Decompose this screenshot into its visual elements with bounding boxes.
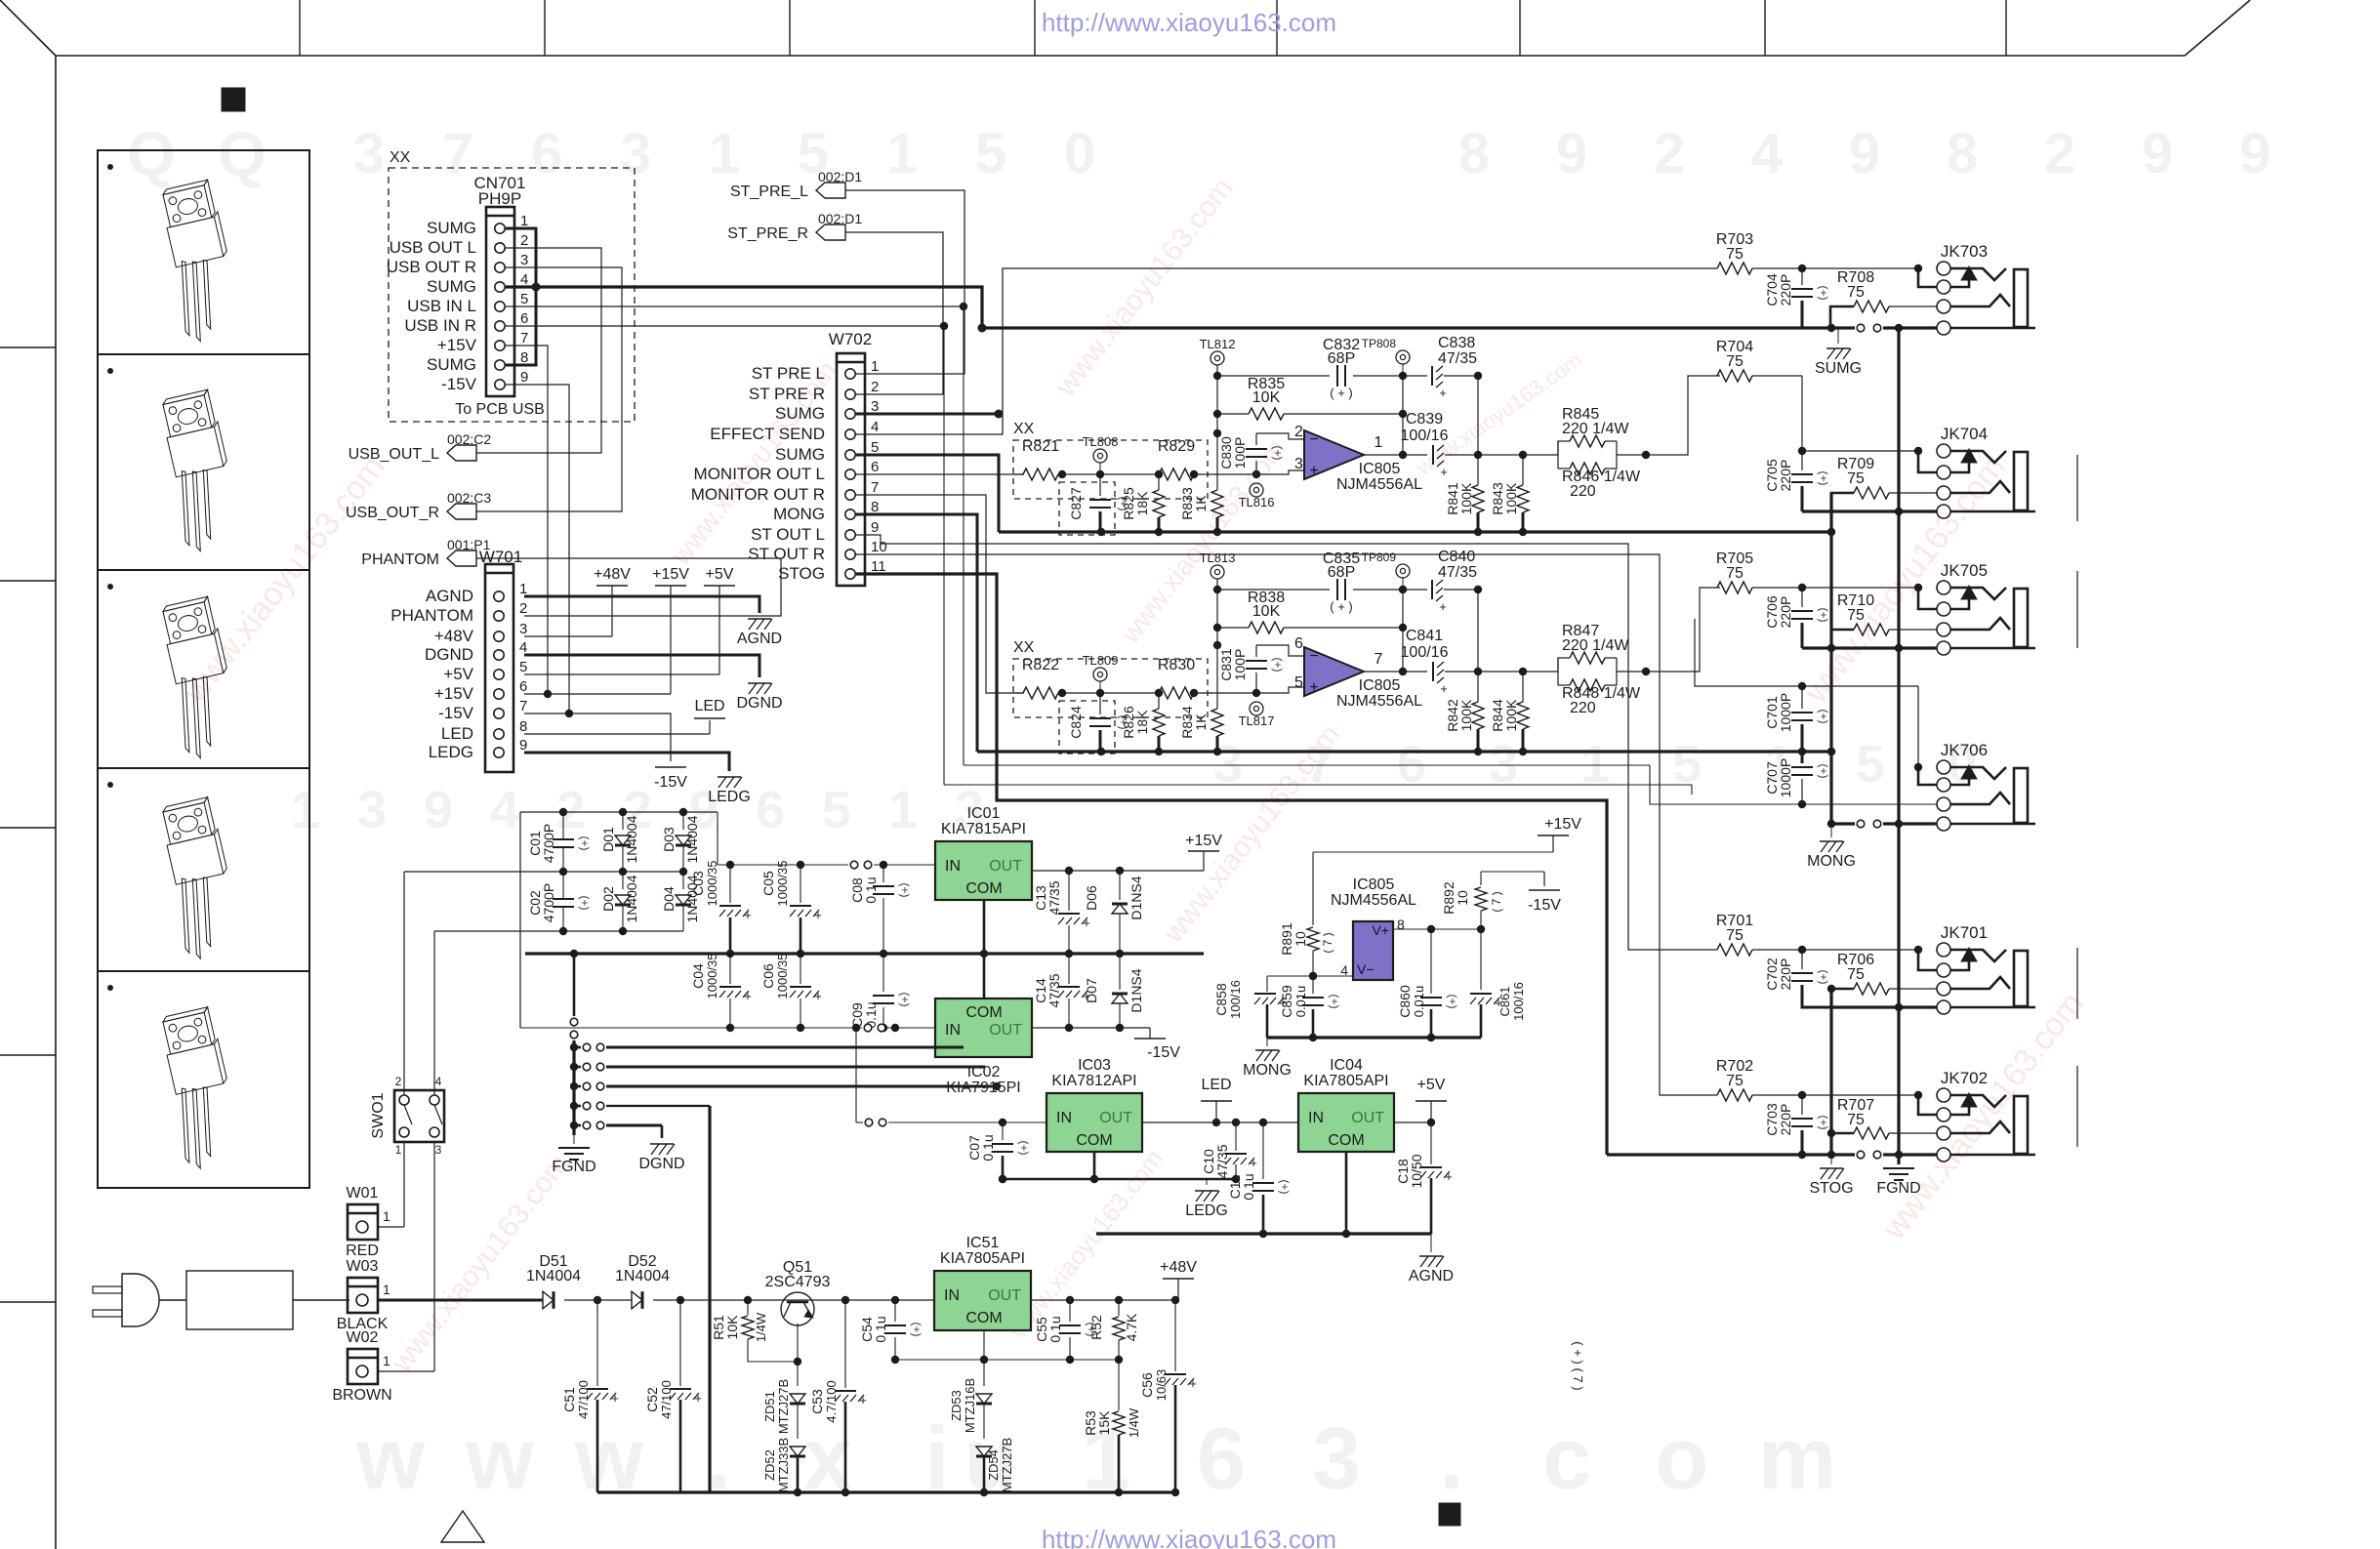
resistor R706 75 xyxy=(1827,952,1937,995)
W701 pin 9 (LEDG) xyxy=(429,737,528,761)
svg-text:D02: D02 xyxy=(600,886,616,912)
wire USB IN L (pin5) xyxy=(506,303,1937,804)
capacitor C14 47/35 xyxy=(1033,954,1090,1032)
svg-text:ST PRE R: ST PRE R xyxy=(749,385,825,403)
wire SUMG bus CN701 pin4 to jacks xyxy=(506,287,1802,333)
top black square xyxy=(222,88,245,111)
wire JK704 sleeve xyxy=(1802,508,1937,515)
svg-text:ST OUT L: ST OUT L xyxy=(751,525,825,544)
svg-text:C03: C03 xyxy=(690,871,706,896)
svg-text:10: 10 xyxy=(1455,890,1470,906)
svg-text:OUT: OUT xyxy=(1099,1110,1132,1126)
connector W702 xyxy=(829,330,872,586)
resistor R842 100K xyxy=(1445,668,1484,752)
power rail +48V xyxy=(1160,1259,1197,1300)
svg-text:8: 8 xyxy=(519,718,527,735)
wire W03 black feed xyxy=(378,1299,543,1302)
svg-text:6: 6 xyxy=(756,781,785,839)
capacitor C06 1000/35 xyxy=(760,954,822,1033)
resistor R705 75 xyxy=(1716,550,1806,593)
wire op-amp output channel 2 xyxy=(1364,590,1407,675)
zener ZD53 MTZJ16B xyxy=(949,1360,992,1439)
wire IC51 mid rail xyxy=(895,1359,1119,1361)
svg-text:+: + xyxy=(1439,386,1447,400)
svg-text:R822: R822 xyxy=(1022,657,1059,673)
svg-text:LEDG: LEDG xyxy=(429,743,473,761)
diode D07 D1NS4 xyxy=(1084,954,1144,1032)
svg-text:C827: C827 xyxy=(1068,487,1084,520)
svg-text:XX: XX xyxy=(1013,639,1035,656)
capacitor C860 0.01u xyxy=(1397,929,1459,1041)
svg-text:COM: COM xyxy=(1328,1132,1364,1149)
svg-text:V+: V+ xyxy=(1372,922,1389,938)
svg-text:5: 5 xyxy=(519,659,527,675)
wire USB IN R (pin6) xyxy=(506,322,1692,785)
svg-text:1: 1 xyxy=(383,1353,390,1368)
wire W702 pin9 ST OUT L to R701 xyxy=(856,535,1717,950)
svg-text:(+): (+) xyxy=(1817,710,1830,724)
svg-text:-15V: -15V xyxy=(1147,1044,1180,1061)
svg-text:1: 1 xyxy=(888,781,918,839)
wire AGND bus xyxy=(1096,1232,1431,1235)
ground STOG xyxy=(1809,1155,1853,1197)
op-amp IC805 channel 1 xyxy=(1304,430,1422,493)
svg-text:47/100: 47/100 xyxy=(659,1380,674,1419)
wire ground bus channel 2 xyxy=(977,748,1835,755)
test point TL816 xyxy=(1239,483,1275,510)
wire input row channel 1 xyxy=(1013,470,1260,478)
wire SW01 to rectifier A xyxy=(403,872,405,1095)
resistor R829 xyxy=(1158,438,1195,480)
svg-text:68P: 68P xyxy=(1328,564,1355,581)
svg-text:COM: COM xyxy=(965,1004,1002,1021)
svg-text:LEDG: LEDG xyxy=(1185,1203,1228,1219)
svg-text:MTZJ16B: MTZJ16B xyxy=(963,1378,977,1433)
svg-text:R821: R821 xyxy=(1022,438,1059,455)
wire cluster row2 end xyxy=(964,1066,985,1069)
svg-text:MONITOR OUT R: MONITOR OUT R xyxy=(691,485,825,504)
wire USB OUT L (pin2) xyxy=(475,248,601,453)
capacitor C702 220P xyxy=(1764,950,1831,1007)
tag PHANTOM (001:P1) xyxy=(361,537,490,568)
svg-text:RED: RED xyxy=(346,1243,379,1259)
svg-text:C53: C53 xyxy=(809,1389,825,1414)
op-amp supply block IC805 NJM4556AL xyxy=(1331,876,1416,980)
svg-text:+: + xyxy=(814,908,822,922)
power rail +15V (W701) xyxy=(524,566,689,694)
wire op-amp inputs channel 1 xyxy=(1256,424,1304,474)
svg-text:75: 75 xyxy=(1847,470,1865,487)
wire IC51 output row xyxy=(1031,1296,1179,1304)
svg-text:AGND: AGND xyxy=(1409,1268,1454,1284)
wire rectifier bottom rail xyxy=(434,927,683,935)
svg-text:1000/35: 1000/35 xyxy=(705,861,719,907)
svg-text:COM: COM xyxy=(965,1310,1002,1326)
capacitor C01 4700P xyxy=(527,812,592,872)
W701 pin 5 (+5V) xyxy=(443,659,527,683)
svg-text:4: 4 xyxy=(1751,122,1783,185)
svg-text:MTZJ33B: MTZJ33B xyxy=(776,1438,791,1492)
jack JK702 xyxy=(1918,1069,2035,1162)
W701 pin 4 (DGND) xyxy=(425,639,527,664)
wire W702 pin6 MONITOR OUT L to amp1 xyxy=(856,473,1023,475)
capacitor C859 0.01u xyxy=(1279,976,1341,1041)
svg-text:1000P: 1000P xyxy=(1778,693,1793,732)
svg-text:4.7/100: 4.7/100 xyxy=(824,1380,839,1422)
svg-text:TP809: TP809 xyxy=(1362,550,1397,564)
svg-text:7: 7 xyxy=(519,698,527,714)
left transistor panel box xyxy=(98,150,309,1188)
wire cluster row3 joins STOG line xyxy=(993,1082,1001,1090)
svg-text:1000/35: 1000/35 xyxy=(775,861,790,907)
svg-text:0.1u: 0.1u xyxy=(863,876,879,903)
svg-text:STOG: STOG xyxy=(778,564,825,583)
svg-text:7: 7 xyxy=(442,122,473,185)
wire W02 to SW01 xyxy=(378,1142,434,1371)
svg-text:100P: 100P xyxy=(1232,437,1248,469)
svg-text:FGND: FGND xyxy=(552,1159,595,1175)
svg-text:15K: 15K xyxy=(1096,1410,1112,1436)
wire ch2 output to R705 xyxy=(1646,588,1720,672)
svg-text:9: 9 xyxy=(871,519,879,536)
capacitor C11 0.1u xyxy=(1227,1122,1292,1238)
svg-text:47/35: 47/35 xyxy=(1438,564,1477,581)
svg-text:ST_PRE_L: ST_PRE_L xyxy=(730,183,808,200)
svg-text:(+): (+) xyxy=(1817,764,1830,779)
svg-text:0.1u: 0.1u xyxy=(1241,1173,1256,1200)
svg-text:7: 7 xyxy=(871,479,879,496)
svg-text:2SC4793: 2SC4793 xyxy=(765,1274,831,1290)
svg-text:OUT: OUT xyxy=(989,858,1022,875)
svg-text:(+): (+) xyxy=(1817,471,1830,486)
wire IC01 COM xyxy=(983,900,986,999)
svg-text:C838: C838 xyxy=(1438,335,1475,351)
wire +15V feed (ICB05) xyxy=(1313,852,1553,925)
svg-text:OUT: OUT xyxy=(989,1022,1022,1039)
svg-text:JK703: JK703 xyxy=(1941,242,1988,261)
svg-text:TL808: TL808 xyxy=(1083,434,1119,449)
resistor R702 75 xyxy=(1716,1058,1806,1101)
svg-text:ZD51: ZD51 xyxy=(762,1391,777,1422)
wire ST_PRE_L to W702 pin1 xyxy=(845,190,964,374)
svg-text:+: + xyxy=(1495,996,1502,1010)
svg-text:XX: XX xyxy=(390,149,411,166)
svg-text:9: 9 xyxy=(1849,122,1880,185)
svg-text:3: 3 xyxy=(435,1143,442,1157)
svg-text:MONG: MONG xyxy=(1807,853,1856,870)
capacitor C03 1000/35 xyxy=(690,861,752,958)
svg-text:D03: D03 xyxy=(661,827,677,852)
svg-text:7: 7 xyxy=(520,330,528,346)
CN701 pin 4 (SUMG) xyxy=(427,271,528,296)
ground MONG (jacks) xyxy=(1807,824,1856,870)
CN701 pin 6 (USB IN R) xyxy=(404,310,528,335)
tag ST_PRE_R (002:D1) xyxy=(727,211,862,242)
regulator IC03 KIA7812API xyxy=(1046,1057,1142,1152)
resistor R704 75 xyxy=(1716,339,1802,382)
svg-text:100/16: 100/16 xyxy=(1401,644,1449,661)
svg-text:SUMG: SUMG xyxy=(775,404,825,423)
svg-text:220P: 220P xyxy=(1778,958,1793,991)
svg-text:+48V: +48V xyxy=(594,566,631,583)
wire JK706 sleeve xyxy=(1827,820,1937,828)
svg-text:Q: Q xyxy=(218,119,267,189)
svg-text:2: 2 xyxy=(2044,122,2075,185)
svg-text:10K: 10K xyxy=(1252,389,1281,406)
svg-text:2: 2 xyxy=(395,1075,402,1088)
test point TL808 xyxy=(1083,434,1119,474)
svg-text:10/50: 10/50 xyxy=(1409,1154,1424,1188)
svg-text:W02: W02 xyxy=(347,1329,379,1346)
svg-text:STOG: STOG xyxy=(1809,1180,1853,1197)
resistor R703 75 xyxy=(1716,231,1806,274)
svg-text:4.7K: 4.7K xyxy=(1124,1313,1139,1341)
capacitor C703 220P xyxy=(1764,1095,1830,1155)
W702 pin 5 (SUMG) xyxy=(775,439,879,464)
wire LEDG bus xyxy=(999,1175,1236,1185)
capacitor C824 xyxy=(1068,693,1130,752)
wire LED W701 pin8 xyxy=(524,720,710,734)
svg-text:D04: D04 xyxy=(661,886,677,912)
capacitor C53 4.7/100 xyxy=(809,1300,867,1496)
svg-text:100/16: 100/16 xyxy=(1401,428,1449,444)
wire rectifier top rail xyxy=(520,808,718,816)
panel separator marks xyxy=(2076,455,2078,1147)
svg-text:ST_PRE_R: ST_PRE_R xyxy=(727,225,808,242)
svg-text:8: 8 xyxy=(1458,122,1490,185)
CN701 pin 5 (USB IN L) xyxy=(407,291,528,315)
svg-text:4: 4 xyxy=(871,419,879,435)
zener ZD54 MTZJ27B xyxy=(976,1438,1014,1496)
svg-text:.: . xyxy=(1439,1410,1463,1508)
svg-text:−: − xyxy=(1309,648,1318,665)
test point TL813 xyxy=(1200,550,1236,649)
svg-text:SUMG: SUMG xyxy=(1815,360,1862,377)
wire negative raw row to IC02 xyxy=(520,1024,935,1032)
resistor R822 xyxy=(1022,657,1059,699)
svg-text:+48V: +48V xyxy=(1160,1259,1197,1276)
power rail +5V (IC04) xyxy=(1416,1077,1447,1122)
svg-text:1N4004: 1N4004 xyxy=(526,1268,581,1284)
test point TL809 xyxy=(1083,653,1119,693)
W702 pin 4 (EFFECT SEND) xyxy=(710,419,879,443)
wire -15V CN701 pin9 xyxy=(506,385,573,717)
svg-text:D01: D01 xyxy=(600,827,616,852)
node XX dashed box channel 1 xyxy=(1013,421,1208,535)
svg-text:220P: 220P xyxy=(1778,460,1793,492)
svg-text:1K: 1K xyxy=(1193,713,1209,731)
wire cluster row4 to bottom bus xyxy=(708,1106,711,1492)
wire rectifier mid rail xyxy=(404,868,687,876)
svg-text:KIA7805API: KIA7805API xyxy=(940,1250,1025,1267)
svg-text:+: + xyxy=(1440,681,1448,696)
svg-text:3: 3 xyxy=(357,781,387,839)
svg-text:+: + xyxy=(1439,599,1447,614)
capacitor C704 220P xyxy=(1764,268,1830,328)
resistor R708 75 xyxy=(1830,269,1937,328)
svg-text:0.1u: 0.1u xyxy=(980,1134,996,1161)
W701 pin 2 (PHANTOM) xyxy=(390,600,527,625)
svg-text:IN: IN xyxy=(1308,1110,1324,1126)
power rail +15V (IC01) xyxy=(1185,833,1222,871)
svg-text:75: 75 xyxy=(1726,353,1744,370)
svg-text:LED: LED xyxy=(694,698,724,714)
svg-text:C56: C56 xyxy=(1139,1372,1155,1398)
svg-text:SUMG: SUMG xyxy=(427,219,476,237)
svg-text:+15V: +15V xyxy=(1185,833,1222,849)
resistor R835 10K xyxy=(1217,376,1407,420)
svg-text:NJM4556AL: NJM4556AL xyxy=(1336,693,1422,710)
svg-text:9: 9 xyxy=(424,781,453,839)
wire PHANTOM to W701 pin2 xyxy=(476,558,781,616)
svg-text:+: + xyxy=(1309,679,1318,696)
svg-text:5: 5 xyxy=(1856,735,1885,794)
svg-text:220P: 220P xyxy=(1778,596,1793,629)
svg-text:IC805: IC805 xyxy=(1359,677,1401,694)
svg-text:c: c xyxy=(1542,1410,1591,1508)
svg-text:+15V: +15V xyxy=(434,684,474,703)
wire cluster row1 end xyxy=(944,1046,964,1049)
svg-text:9: 9 xyxy=(520,369,528,386)
CN701 pin 3 (USB OUT R) xyxy=(387,252,529,276)
jack JK705 xyxy=(1918,561,2035,655)
svg-text:COM: COM xyxy=(965,880,1002,897)
wire -15V feed (ICB05) xyxy=(1481,872,1544,886)
svg-text:JK705: JK705 xyxy=(1941,561,1988,580)
svg-text:10: 10 xyxy=(871,539,887,555)
svg-text:8: 8 xyxy=(1397,917,1405,932)
svg-text:0.01u: 0.01u xyxy=(1293,986,1308,1018)
power rail +15V (ICB05) xyxy=(1538,816,1581,852)
svg-text:1: 1 xyxy=(291,781,320,839)
svg-text:ZD52: ZD52 xyxy=(762,1449,777,1481)
svg-text:5: 5 xyxy=(1294,674,1303,691)
wire bottom ground bus xyxy=(597,1490,1175,1493)
svg-text:6: 6 xyxy=(1197,1410,1246,1508)
svg-text:2: 2 xyxy=(1654,122,1685,185)
svg-text:JK701: JK701 xyxy=(1941,923,1988,942)
power rail +48V xyxy=(524,566,631,636)
svg-text:(+): (+) xyxy=(898,883,912,898)
capacitor C701 1000P xyxy=(1764,686,1830,752)
wire +15V CN701 pin7 xyxy=(506,346,552,698)
svg-text:4700P: 4700P xyxy=(541,883,556,922)
wire SUMG sleeve bus JK703 xyxy=(1802,324,1937,332)
tag USB_OUT_L (002:C2) xyxy=(349,431,492,463)
svg-text:5: 5 xyxy=(520,291,528,307)
resistor R833 1K xyxy=(1179,433,1223,532)
capacitor C52 47/100 xyxy=(644,1300,702,1492)
transistor package drawing 5 xyxy=(107,985,246,1173)
svg-text:JK704: JK704 xyxy=(1941,425,1988,443)
resistor R844 100K xyxy=(1490,668,1529,752)
svg-text:IC805: IC805 xyxy=(1359,461,1401,477)
resistor R826 18K xyxy=(1121,693,1165,752)
svg-text:TP808: TP808 xyxy=(1362,337,1397,350)
svg-text:9: 9 xyxy=(2239,122,2271,185)
resistor R821 xyxy=(1022,438,1059,480)
svg-text:6: 6 xyxy=(519,678,527,695)
svg-text:DGND: DGND xyxy=(638,1156,684,1172)
svg-text:220: 220 xyxy=(1570,700,1596,716)
svg-text:(+): (+) xyxy=(1817,286,1830,301)
svg-text:+: + xyxy=(744,908,752,922)
node XX dashed box channel 2 xyxy=(1013,639,1208,754)
svg-text:XX: XX xyxy=(1013,421,1035,437)
svg-text:SUMG: SUMG xyxy=(427,355,476,374)
svg-text:3: 3 xyxy=(520,252,528,268)
capacitor C13 47/35 xyxy=(1033,871,1090,954)
wire main ground bus (power) xyxy=(525,950,1204,958)
W701 pin 3 (+48V) xyxy=(434,621,528,645)
capacitor C707 1000P xyxy=(1764,752,1830,808)
resistor R701 75 xyxy=(1716,913,1806,956)
zener ZD51 MTZJ27B xyxy=(762,1362,805,1439)
diode D01 1N4004 xyxy=(600,812,639,872)
CN701 pin 8 (SUMG) xyxy=(427,349,528,374)
svg-text:8: 8 xyxy=(871,499,879,515)
svg-text:2: 2 xyxy=(519,600,527,617)
capacitor C51 47/100 xyxy=(561,1300,619,1492)
wire raw supply row to IC01 xyxy=(718,812,935,869)
svg-text:+: + xyxy=(1250,1156,1257,1170)
ground MONG (ICB05) xyxy=(1243,1038,1292,1079)
svg-text:+: + xyxy=(814,989,822,1003)
wire V+ row (ICB05) xyxy=(1393,925,1481,933)
transistor package drawing 4 xyxy=(107,782,246,963)
ground DGND (cluster) xyxy=(638,1144,684,1172)
ground FGND (cluster) xyxy=(552,1135,595,1175)
wire ICB05 ground bus xyxy=(1267,1036,1481,1039)
svg-text:JK706: JK706 xyxy=(1941,741,1988,759)
polarity marks bottom right xyxy=(1571,1341,1585,1390)
diode D02 1N4004 xyxy=(600,872,639,931)
svg-text:18K: 18K xyxy=(1134,710,1150,735)
zener ZD52 MTZJ33B xyxy=(762,1438,805,1496)
resistor R825 18K xyxy=(1121,474,1165,532)
svg-text:C841: C841 xyxy=(1406,628,1443,644)
wire rectifier left loop xyxy=(519,812,521,1028)
svg-text:47/35: 47/35 xyxy=(1438,350,1477,367)
wire -15V W701 pin7 xyxy=(524,713,671,761)
connector CN701 xyxy=(474,174,526,396)
op-amp IC805 channel 2 xyxy=(1304,647,1422,710)
svg-text:IC04: IC04 xyxy=(1330,1057,1363,1074)
svg-text:1: 1 xyxy=(395,1143,402,1157)
svg-text:0.01u: 0.01u xyxy=(1412,986,1426,1018)
svg-text:NJM4556AL: NJM4556AL xyxy=(1331,892,1416,909)
wire IC01 output row xyxy=(1032,867,1204,875)
capacitor C04 1000/35 xyxy=(690,954,752,1033)
transformer block xyxy=(186,1271,293,1329)
resistor R709 75 xyxy=(1831,456,1937,532)
svg-text:+15V: +15V xyxy=(437,336,477,354)
capacitor C839 100/16 xyxy=(1401,411,1558,479)
svg-text:9: 9 xyxy=(519,737,527,754)
ground LEDG (W701) xyxy=(708,777,751,805)
svg-text:TL816: TL816 xyxy=(1239,495,1275,510)
ground SUMG (jacks) xyxy=(1815,328,1862,377)
capacitor C54 0.1u xyxy=(859,1300,923,1364)
svg-text:10K: 10K xyxy=(724,1315,740,1340)
svg-text:( + ): ( + ) xyxy=(1330,599,1352,614)
resistor R841 100K xyxy=(1445,451,1484,532)
svg-text:+: + xyxy=(859,1393,867,1407)
svg-text:1N4004: 1N4004 xyxy=(624,815,639,863)
diode D52 1N4004 xyxy=(597,1253,752,1309)
power rail -15V (IC02) xyxy=(1134,1028,1180,1061)
wire row into IC03 xyxy=(852,1024,1046,1126)
